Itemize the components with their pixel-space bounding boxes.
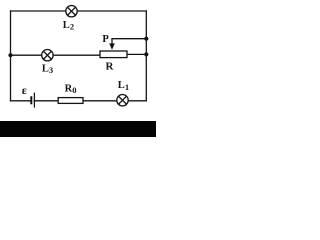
- wire bottom: [11, 100, 31, 102]
- battery cell: [30, 93, 34, 108]
- rheostat R: [100, 51, 127, 58]
- lamp L1: [117, 95, 128, 106]
- wire rheostat right: [127, 53, 146, 55]
- wire bottom right of battery: [34, 100, 146, 102]
- svg-text:L1: L1: [118, 80, 129, 92]
- wire wiper to right rail: [112, 38, 146, 40]
- node junction rheostat-right: [144, 52, 148, 56]
- node junction wiper-right: [144, 37, 148, 41]
- svg-text:R: R: [106, 60, 115, 72]
- wire top: [11, 10, 147, 12]
- svg-text:L3: L3: [42, 63, 53, 75]
- lamp L3: [42, 50, 53, 61]
- svg-text:R0: R0: [65, 84, 77, 96]
- node junction left: [8, 53, 12, 57]
- wire left: [10, 11, 12, 101]
- wiper P: [109, 39, 115, 50]
- svg-text:ε: ε: [22, 83, 27, 97]
- lamp L2: [66, 6, 77, 17]
- wire right: [145, 11, 147, 101]
- svg-text:P: P: [102, 34, 109, 45]
- svg-text:L2: L2: [63, 20, 74, 32]
- resistor R0: [58, 98, 83, 104]
- wire middle branch: [11, 54, 101, 56]
